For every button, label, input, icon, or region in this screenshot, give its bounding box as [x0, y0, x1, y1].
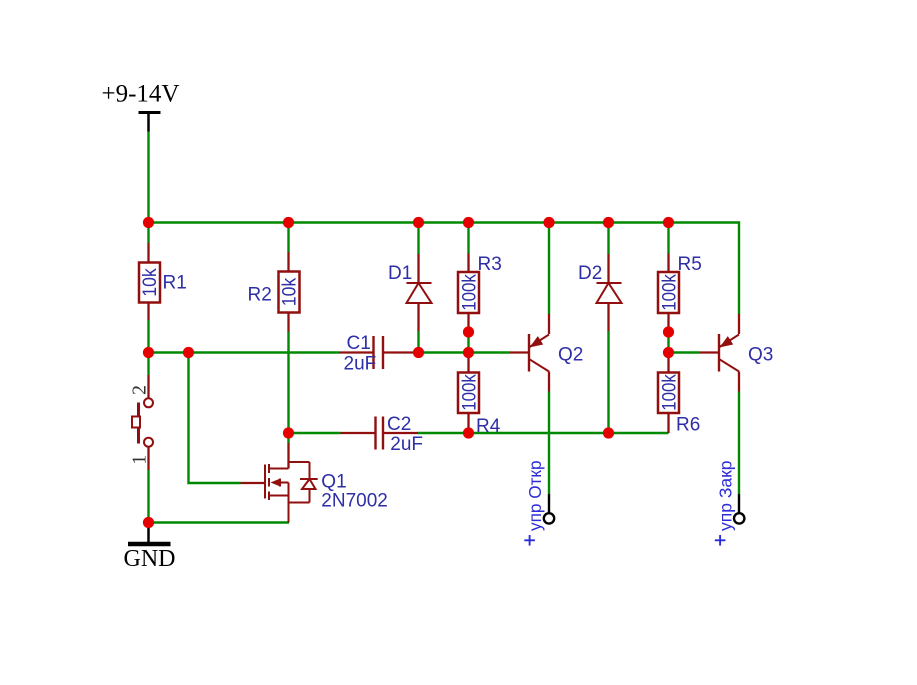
svg-text:2N7002: 2N7002	[321, 491, 388, 512]
svg-text:Q1: Q1	[321, 472, 346, 493]
svg-text:100k: 100k	[459, 274, 481, 311]
svg-text:упр Откр: упр Откр	[525, 461, 545, 532]
svg-text:Q3: Q3	[748, 345, 773, 366]
svg-text:2uF: 2uF	[390, 434, 423, 455]
svg-text:100k: 100k	[459, 374, 481, 411]
svg-text:10k: 10k	[139, 268, 161, 297]
svg-text:R2: R2	[248, 284, 272, 305]
svg-text:R1: R1	[163, 273, 187, 294]
svg-text:R3: R3	[478, 254, 502, 275]
svg-text:C2: C2	[387, 414, 411, 435]
svg-text:R4: R4	[476, 416, 501, 437]
svg-text:+9-14V: +9-14V	[102, 80, 180, 107]
svg-text:R5: R5	[678, 254, 702, 275]
svg-text:D2: D2	[578, 263, 602, 284]
svg-text:D1: D1	[388, 263, 412, 284]
svg-text:C1: C1	[347, 333, 371, 354]
svg-text:100k: 100k	[659, 274, 681, 311]
svg-text:2: 2	[129, 385, 151, 395]
svg-text:Q2: Q2	[558, 345, 583, 366]
svg-text:GND: GND	[124, 546, 176, 572]
svg-text:упр Закр: упр Закр	[716, 461, 736, 532]
svg-text:1: 1	[129, 455, 151, 465]
svg-text:100k: 100k	[659, 374, 681, 411]
svg-text:R6: R6	[676, 415, 700, 436]
svg-text:10k: 10k	[279, 278, 301, 307]
svg-text:2uF: 2uF	[344, 353, 377, 374]
